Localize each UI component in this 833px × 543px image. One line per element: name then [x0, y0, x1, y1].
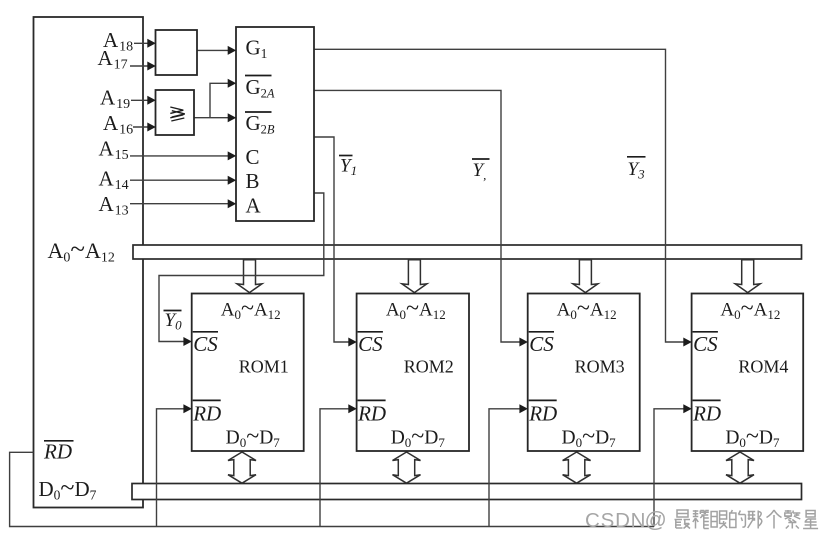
svg-text:A: A [246, 193, 262, 217]
svg-text:@: @ [645, 507, 667, 532]
svg-text:CS: CS [193, 332, 218, 356]
svg-text:RD: RD [528, 402, 557, 426]
svg-text:CS: CS [693, 332, 718, 356]
svg-text:CSDN: CSDN [585, 509, 646, 532]
svg-text:ROM4: ROM4 [738, 356, 788, 376]
svg-text:B: B [246, 169, 260, 193]
svg-text:D0~D7: D0~D7 [226, 423, 281, 450]
svg-text:D0~D7: D0~D7 [39, 473, 97, 503]
svg-text:CS: CS [529, 332, 554, 356]
svg-text:RD: RD [357, 402, 386, 426]
svg-text:ROM3: ROM3 [575, 356, 625, 376]
svg-text:D0~D7: D0~D7 [391, 423, 446, 450]
svg-text:CS: CS [358, 332, 383, 356]
svg-text:ROM1: ROM1 [239, 356, 289, 376]
svg-text:RD: RD [192, 402, 221, 426]
svg-text:D0~D7: D0~D7 [725, 423, 780, 450]
svg-text:RD: RD [692, 402, 721, 426]
svg-text:C: C [246, 145, 260, 169]
svg-text:RD: RD [43, 440, 72, 464]
svg-text:ROM2: ROM2 [404, 356, 454, 376]
svg-text:D0~D7: D0~D7 [562, 423, 617, 450]
